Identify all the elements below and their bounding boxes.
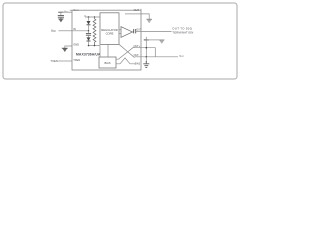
svg-text:BIAS: BIAS xyxy=(135,63,141,66)
junction xyxy=(146,47,148,49)
junction xyxy=(94,16,95,17)
wire tick at chip top-left xyxy=(70,9,72,11)
wire stem xyxy=(60,12,62,15)
wire top interior rail xyxy=(85,15,100,17)
diode D1 xyxy=(88,17,90,21)
wire GND pin out xyxy=(65,46,72,48)
wire C4 to G2 xyxy=(146,39,162,41)
wire stub xyxy=(119,29,121,31)
wire to G1 xyxy=(141,14,149,19)
ground G2 xyxy=(159,39,164,41)
svg-text:REGULATOR: REGULATOR xyxy=(101,28,118,32)
wire OUT+ xyxy=(141,48,155,57)
border frame xyxy=(3,3,237,79)
ground arrow below C1 xyxy=(58,18,63,20)
junction input node xyxy=(88,30,90,32)
wire X cross diag2 xyxy=(116,47,141,59)
svg-text:MAX3736A/UA: MAX3736A/UA xyxy=(76,53,101,57)
svg-text:TXEN: TXEN xyxy=(50,59,57,63)
svg-text:BIAS: BIAS xyxy=(104,61,110,65)
wire BIAS bump xyxy=(116,58,134,64)
svg-text:IN: IN xyxy=(73,27,76,31)
svg-text:OUT: OUT xyxy=(134,8,140,12)
capacitor C2 xyxy=(88,31,90,33)
svg-text:TERMINATION: TERMINATION xyxy=(172,31,193,35)
ground G3 xyxy=(143,64,149,68)
ground left pin xyxy=(62,47,68,49)
svg-text:VIN: VIN xyxy=(51,29,56,33)
svg-text:VCC: VCC xyxy=(179,54,184,58)
capacitor C4 xyxy=(144,39,149,41)
resistor R1 vertical zigzag xyxy=(93,17,96,46)
svg-text:GND: GND xyxy=(73,43,79,47)
chip U1 MAX3736 box xyxy=(72,10,141,70)
wire OUT- to VCC label xyxy=(141,56,178,58)
wire stub xyxy=(119,33,121,35)
junction xyxy=(146,61,147,62)
wire to G3 xyxy=(145,57,147,64)
wire X cross diag1 xyxy=(119,44,141,57)
wire IN inside chip xyxy=(72,30,89,32)
block BIAS box xyxy=(99,57,116,68)
junction xyxy=(94,45,96,47)
wire xyxy=(60,17,62,19)
junction xyxy=(146,56,148,58)
wire bottom rail xyxy=(89,45,101,47)
svg-text:CORE: CORE xyxy=(106,32,114,36)
wire TXEN to chip xyxy=(58,60,72,62)
junction xyxy=(88,16,90,18)
capacitor C1 bypass xyxy=(58,15,64,17)
VCC power bar xyxy=(58,11,63,13)
wire to bias box xyxy=(99,46,101,58)
wire VIN to chip xyxy=(59,30,73,32)
op-amp A1 triangle xyxy=(121,27,133,38)
svg-text:TXEN: TXEN xyxy=(73,58,80,62)
wire VCC bar to chip xyxy=(61,11,72,13)
svg-text:VCC1: VCC1 xyxy=(73,8,79,12)
wire top-right VCC rail xyxy=(125,13,141,15)
wire down xyxy=(145,40,147,57)
wire OUT long xyxy=(141,30,172,32)
block REGULATOR CORE box xyxy=(100,13,119,45)
wire block to bias xyxy=(107,44,109,57)
junction xyxy=(88,45,90,47)
ground G1 xyxy=(146,18,152,20)
capacitor C3 output xyxy=(133,30,134,33)
diode D2 xyxy=(88,35,90,37)
